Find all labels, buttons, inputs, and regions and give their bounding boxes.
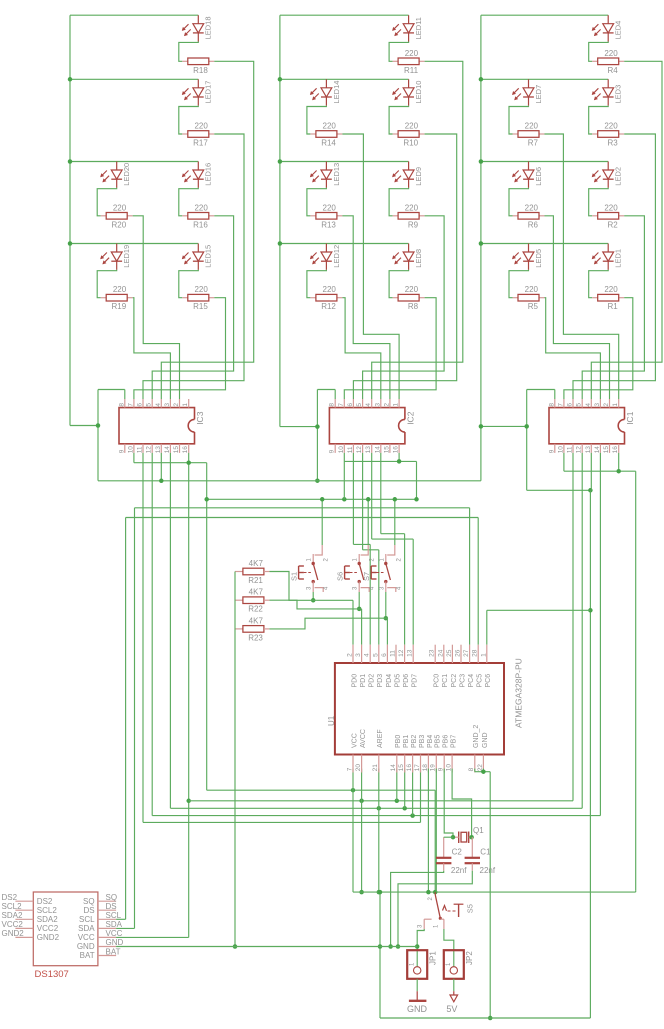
svg-text:SDA2: SDA2 — [2, 911, 23, 920]
svg-text:R13: R13 — [321, 220, 336, 229]
svg-text:R10: R10 — [403, 139, 418, 148]
junction IC3 pin16 jog — [186, 453, 191, 938]
svg-text:12: 12 — [356, 446, 363, 454]
svg-text:220: 220 — [113, 203, 127, 212]
svg-text:PB0: PB0 — [395, 735, 402, 748]
svg-text:VCC: VCC — [351, 733, 358, 748]
svg-text:220: 220 — [405, 122, 419, 131]
wire J1 to IC3 pin 8 — [98, 390, 125, 400]
svg-text:19: 19 — [430, 764, 437, 772]
svg-text:220: 220 — [113, 285, 127, 294]
svg-text:9: 9 — [548, 449, 555, 453]
svg-text:220: 220 — [525, 122, 539, 131]
wire U1 pins 8,22 GND — [475, 769, 490, 774]
svg-text:IC3: IC3 — [195, 411, 205, 425]
svg-text:PC2: PC2 — [451, 674, 458, 688]
resistor R16 220 — [179, 188, 215, 230]
wire S7 pin3 down — [384, 592, 389, 620]
svg-text:9: 9 — [329, 449, 336, 453]
svg-text:1: 1 — [612, 403, 619, 407]
wire left-col resistor row2 group1 to IC pin 2 — [133, 216, 180, 399]
pushbutton S6 — [335, 545, 375, 592]
svg-text:R16: R16 — [193, 220, 208, 229]
svg-text:LED5: LED5 — [534, 249, 543, 268]
wire U1 pin9 to crystal — [444, 769, 453, 838]
svg-text:S1: S1 — [289, 572, 298, 581]
junction J3 — [479, 424, 529, 429]
svg-text:13: 13 — [407, 649, 414, 657]
svg-text:16: 16 — [406, 764, 413, 772]
svg-text:14: 14 — [594, 446, 601, 454]
svg-text:SQ: SQ — [83, 897, 95, 906]
junction spine on bus y490.3 — [588, 488, 593, 493]
svg-text:27: 27 — [463, 649, 470, 657]
svg-text:DS2: DS2 — [37, 897, 53, 906]
wire left-col resistor row2 group3 to IC pin 2 — [545, 216, 610, 399]
wire resistor row0 group1 to IC pin 4 — [161, 61, 253, 399]
junction dots rail group 1 — [68, 77, 73, 246]
svg-text:10: 10 — [338, 446, 345, 454]
resistor R17 220 — [179, 106, 215, 148]
wire SCL bus y517.5 — [116, 518, 478, 920]
svg-text:SDA2: SDA2 — [37, 915, 58, 924]
svg-text:PD5: PD5 — [394, 674, 401, 688]
resistor R2 220 — [589, 188, 625, 230]
LED LED11 — [392, 15, 423, 41]
svg-text:PD2: PD2 — [369, 674, 376, 688]
svg-text:7: 7 — [127, 403, 134, 407]
svg-text:R4: R4 — [607, 66, 618, 75]
junction S5 pin2 — [433, 890, 438, 895]
wire resistor row3 group1 to IC pin 7 — [134, 298, 226, 399]
wire U1 pin20 down — [359, 769, 364, 895]
svg-text:SDA: SDA — [78, 924, 95, 933]
svg-text:11: 11 — [137, 446, 144, 453]
svg-text:VCC2: VCC2 — [2, 920, 24, 929]
wire bottom border GND — [378, 890, 591, 1018]
junction J2 — [315, 424, 320, 483]
svg-text:220: 220 — [604, 122, 618, 131]
svg-text:5: 5 — [372, 653, 379, 657]
wire resistor row1 group3 to IC pin 6 — [573, 134, 655, 399]
svg-text:3: 3 — [594, 403, 601, 407]
junction IC2 pin16 jog — [397, 453, 402, 464]
wire IC2 pin12 to U1 pin5 — [363, 453, 379, 645]
LED LED10 — [392, 79, 423, 105]
svg-text:4K7: 4K7 — [249, 616, 264, 625]
svg-text:PB3: PB3 — [419, 735, 426, 748]
svg-text:5V: 5V — [446, 1004, 457, 1014]
svg-text:9: 9 — [438, 767, 445, 771]
svg-text:8: 8 — [548, 403, 555, 407]
wire U1 pin19 down to S5 — [435, 769, 437, 893]
svg-text:PB4: PB4 — [427, 735, 434, 748]
wire S5 feed x435.2 — [434, 790, 436, 892]
svg-text:3: 3 — [164, 403, 171, 407]
wire U1 pin15 down — [404, 769, 406, 809]
LED LED9 — [392, 162, 423, 188]
wire S6 pin3 down — [357, 592, 362, 611]
wire VCC right spine x635.7 — [635, 471, 637, 892]
resistor R20 220 — [97, 188, 133, 230]
svg-text:JP1: JP1 — [429, 951, 438, 965]
svg-text:220: 220 — [405, 49, 419, 58]
svg-text:1: 1 — [480, 653, 487, 657]
wire C2 to GND — [388, 871, 443, 949]
resistor R13 220 — [307, 188, 343, 230]
wire resistor row3 group3 to IC pin 7 — [564, 298, 633, 399]
shift register IC3 — [118, 399, 205, 453]
resistor R8 220 — [389, 270, 425, 311]
svg-text:11: 11 — [390, 650, 397, 657]
svg-text:10: 10 — [557, 446, 564, 454]
svg-text:BAT: BAT — [106, 947, 121, 956]
svg-text:LED20: LED20 — [122, 163, 131, 186]
wire GND spine x490.2 — [488, 772, 493, 1021]
wire resistor row3 group2 to IC pin 7 — [344, 298, 436, 399]
crystal Q1 — [453, 826, 484, 843]
svg-text:13: 13 — [585, 446, 592, 454]
wire clock rail y808.3 IC3 pin14 to IC1 pin12 — [170, 453, 582, 811]
wire J2 to IC2 pin 8 — [317, 390, 335, 400]
junction IC1 pin16 jog — [616, 453, 621, 474]
svg-text:1: 1 — [182, 403, 189, 407]
wire data rail y800.8 IC3 pin16 to IC1 pin11 — [189, 453, 573, 803]
svg-text:PB2: PB2 — [411, 735, 418, 748]
svg-text:SDA: SDA — [106, 920, 123, 929]
pushbutton S5 — [418, 892, 475, 929]
wire VCC spine x353 down — [353, 790, 636, 892]
svg-text:16: 16 — [612, 446, 619, 454]
LED LED18 — [182, 15, 213, 41]
wire R22 to S6 junction and U1 pin3 — [269, 600, 361, 645]
svg-text:PC4: PC4 — [468, 674, 475, 688]
wire anode rail group 1 — [70, 15, 198, 425]
wire C1 to GND — [396, 871, 473, 949]
svg-text:11: 11 — [567, 446, 574, 453]
wire SDA bus y507.8 — [116, 508, 470, 929]
svg-text:4: 4 — [155, 403, 162, 407]
svg-text:LED10: LED10 — [414, 81, 423, 104]
svg-text:R11: R11 — [404, 66, 419, 75]
svg-text:R18: R18 — [193, 66, 208, 75]
svg-text:PB1: PB1 — [403, 735, 410, 748]
svg-text:7: 7 — [346, 767, 353, 771]
svg-text:PC1: PC1 — [442, 674, 449, 688]
wire R21 to S1 junction and U1 pin2 — [269, 572, 353, 645]
svg-text:15: 15 — [173, 446, 180, 454]
svg-text:220: 220 — [194, 203, 208, 212]
svg-text:LED14: LED14 — [332, 81, 341, 104]
wire resistor row1 group1 to IC pin 6 — [143, 134, 244, 399]
svg-text:6: 6 — [137, 403, 144, 407]
svg-text:15: 15 — [398, 764, 405, 772]
svg-text:Q1: Q1 — [473, 826, 484, 835]
LED LED13 — [310, 162, 341, 188]
wire resistor row2 group2 to IC pin 5 — [363, 216, 445, 399]
svg-text:S7: S7 — [362, 572, 371, 581]
svg-text:220: 220 — [194, 285, 208, 294]
svg-text:R8: R8 — [408, 302, 419, 311]
resistor R23 4K7 — [235, 616, 269, 642]
svg-text:LED11: LED11 — [414, 17, 423, 39]
svg-text:VCC2: VCC2 — [37, 924, 59, 933]
svg-text:8: 8 — [329, 403, 336, 407]
svg-text:15: 15 — [383, 446, 390, 454]
junction dots rail group 3 — [479, 77, 484, 246]
svg-text:VCC: VCC — [78, 933, 95, 942]
LED LED20 — [100, 162, 131, 188]
shift register IC2 — [329, 399, 416, 453]
wire resistor row0 group2 to IC pin 4 — [372, 61, 463, 399]
svg-text:220: 220 — [405, 203, 419, 212]
svg-text:DS1307: DS1307 — [35, 969, 69, 980]
wire U1 pin16 down — [412, 769, 414, 816]
connector JP1 — [407, 950, 437, 979]
svg-text:R5: R5 — [528, 302, 539, 311]
wire S5 pin3 to JP1 — [415, 929, 424, 967]
resistor R1 220 — [589, 270, 625, 311]
svg-text:PC6: PC6 — [485, 674, 492, 688]
svg-text:R23: R23 — [248, 633, 263, 642]
svg-text:PD0: PD0 — [351, 674, 358, 688]
svg-text:LED12: LED12 — [332, 245, 341, 268]
wire rail y822.4 IC3 pin11 to U1 pin17 — [143, 453, 421, 823]
svg-text:SCL: SCL — [106, 911, 122, 920]
svg-text:C1: C1 — [480, 848, 491, 857]
svg-text:15: 15 — [603, 446, 610, 454]
RTC IC DS1307 — [15, 892, 116, 980]
svg-text:GND: GND — [482, 732, 489, 748]
wire U1 pin18 down — [426, 769, 431, 895]
svg-text:4: 4 — [364, 653, 371, 657]
wire IC2 pin11 to U1 pin4 — [353, 453, 370, 645]
svg-text:LED17: LED17 — [204, 81, 213, 104]
labels DS1307 left nets — [2, 893, 25, 938]
capacitor C2 22nf — [436, 837, 467, 875]
svg-text:GND2: GND2 — [37, 933, 60, 942]
svg-text:3: 3 — [374, 403, 381, 407]
svg-text:17: 17 — [414, 764, 421, 772]
svg-text:14: 14 — [164, 446, 171, 454]
svg-text:12: 12 — [576, 446, 583, 454]
svg-text:220: 220 — [525, 203, 539, 212]
wire left-col resistor row1 group2 to IC pin 1 — [342, 134, 399, 399]
svg-text:8: 8 — [468, 767, 475, 771]
LED LED1 — [592, 244, 623, 270]
svg-text:6: 6 — [567, 403, 574, 407]
svg-text:PB6: PB6 — [443, 735, 450, 748]
svg-text:LED4: LED4 — [614, 21, 623, 40]
LED LED8 — [392, 244, 423, 270]
svg-text:2: 2 — [347, 653, 354, 657]
svg-text:PC0: PC0 — [434, 674, 441, 688]
svg-text:220: 220 — [604, 203, 618, 212]
svg-text:PB5: PB5 — [435, 735, 442, 748]
svg-text:PD7: PD7 — [412, 674, 419, 688]
wire S1 pin2 up to VCC bus — [320, 497, 325, 545]
svg-text:R19: R19 — [112, 302, 127, 311]
svg-text:LED16: LED16 — [204, 163, 213, 186]
svg-text:PC3: PC3 — [459, 674, 466, 688]
wire left-col resistor row3 group3 to IC pin 3 — [545, 298, 601, 399]
svg-text:JP2: JP2 — [465, 951, 474, 965]
svg-text:BAT: BAT — [80, 951, 95, 960]
LED LED19 — [100, 244, 131, 270]
svg-text:DS: DS — [106, 902, 117, 911]
svg-text:LED7: LED7 — [534, 85, 543, 104]
svg-text:AVCC: AVCC — [360, 729, 367, 748]
LED LED12 — [310, 244, 341, 270]
resistor R4 220 — [589, 42, 625, 75]
svg-text:11: 11 — [347, 446, 354, 453]
wire rail1 to J1 — [70, 425, 98, 427]
resistor R21 4K7 — [235, 559, 269, 585]
wire IC2 pin13 to U1 pin13 — [372, 453, 414, 645]
svg-text:U1: U1 — [327, 715, 336, 726]
svg-text:3: 3 — [355, 653, 362, 657]
LED LED14 — [310, 79, 341, 105]
svg-text:14: 14 — [374, 446, 381, 454]
svg-text:R17: R17 — [193, 139, 208, 148]
wire left-col resistor row2 group2 to IC pin 2 — [342, 216, 390, 399]
resistor R3 220 — [589, 106, 625, 148]
svg-text:26: 26 — [455, 649, 462, 657]
wire rail2 to J2 — [280, 426, 318, 428]
svg-text:220: 220 — [604, 49, 618, 58]
resistor R14 220 — [307, 106, 343, 148]
connector JP2 — [444, 950, 474, 979]
svg-text:S5: S5 — [466, 904, 475, 913]
wire IC3 pins 10,16 VCC jog — [134, 453, 207, 790]
svg-text:220: 220 — [405, 285, 419, 294]
svg-text:R20: R20 — [112, 220, 127, 229]
svg-text:12: 12 — [146, 446, 153, 454]
svg-text:2: 2 — [603, 403, 610, 407]
wire J1 vertical — [97, 390, 99, 481]
wire U1 pin21 down — [377, 769, 382, 895]
svg-text:PD3: PD3 — [377, 674, 384, 688]
svg-text:24: 24 — [437, 649, 444, 657]
wire S6 pin2 up to VCC bus — [366, 497, 371, 545]
svg-text:4: 4 — [365, 403, 372, 407]
svg-text:14: 14 — [390, 764, 397, 772]
svg-text:IC1: IC1 — [625, 411, 635, 425]
svg-text:5: 5 — [576, 403, 583, 407]
pushbutton S1 — [289, 545, 329, 592]
svg-text:R7: R7 — [528, 139, 539, 148]
resistor R10 220 — [389, 106, 425, 148]
svg-text:28: 28 — [472, 649, 479, 657]
wire DS1307 GND bus — [116, 946, 417, 948]
svg-text:R15: R15 — [193, 302, 208, 311]
wire rail3 to J3 — [481, 425, 527, 427]
capacitor C1 22nf — [465, 837, 496, 875]
svg-text:LED18: LED18 — [204, 16, 213, 39]
svg-text:9: 9 — [118, 449, 125, 453]
svg-text:13: 13 — [365, 446, 372, 454]
svg-text:22nf: 22nf — [451, 866, 467, 875]
svg-text:SQ: SQ — [106, 893, 118, 902]
LED LED15 — [182, 244, 213, 270]
svg-text:5: 5 — [356, 403, 363, 407]
wire bus y490.3 J3 to x635.7 — [527, 489, 591, 491]
svg-text:R12: R12 — [321, 302, 336, 311]
svg-text:7: 7 — [338, 403, 345, 407]
svg-text:6: 6 — [381, 653, 388, 657]
wire R23 to S7 junction and U1 pin6 — [269, 618, 387, 645]
svg-text:DS: DS — [83, 906, 94, 915]
svg-text:IC2: IC2 — [406, 411, 416, 425]
LED LED2 — [592, 162, 623, 188]
svg-text:LED13: LED13 — [332, 163, 341, 186]
wire J3 vertical — [526, 390, 528, 491]
wire IC2 pins 10,16 VCC jog — [344, 453, 416, 499]
svg-text:LED2: LED2 — [614, 167, 623, 186]
svg-text:16: 16 — [393, 446, 400, 454]
LED LED5 — [512, 244, 543, 270]
junction dots rail group 2 — [278, 77, 283, 246]
svg-text:R6: R6 — [528, 220, 539, 229]
wire U1 pin1 to spine x590.4 — [487, 610, 591, 644]
svg-text:SCL2: SCL2 — [2, 902, 23, 911]
svg-text:16: 16 — [182, 446, 189, 454]
wire IC2 pin10 lower stub — [343, 461, 345, 499]
svg-text:18: 18 — [422, 764, 429, 772]
wire IC1 pins 10,16 VCC jog — [564, 453, 636, 471]
svg-text:PB7: PB7 — [451, 735, 458, 748]
svg-text:10: 10 — [446, 764, 453, 772]
svg-text:220: 220 — [323, 203, 337, 212]
svg-text:23: 23 — [429, 649, 436, 657]
junction J1 — [96, 423, 101, 428]
svg-text:220: 220 — [604, 285, 618, 294]
svg-text:R9: R9 — [408, 220, 419, 229]
svg-text:GND: GND — [77, 942, 95, 951]
junction crystal left — [451, 835, 456, 840]
svg-text:6: 6 — [347, 403, 354, 407]
svg-text:S6: S6 — [335, 572, 344, 581]
shift register IC1 — [548, 399, 635, 453]
svg-text:25: 25 — [446, 649, 453, 657]
svg-text:220: 220 — [194, 122, 208, 131]
svg-text:7: 7 — [557, 403, 564, 407]
wire S5 pin1 to JP2 — [444, 929, 454, 967]
wire J2 vertical — [316, 390, 318, 481]
resistor R19 220 — [97, 270, 133, 311]
junction crystal right — [469, 835, 474, 840]
resistor R15 220 — [179, 270, 215, 311]
svg-text:PD4: PD4 — [386, 674, 393, 688]
wire left-col resistor row3 group1 to IC pin 3 — [133, 298, 171, 399]
resistor R6 220 — [509, 188, 545, 230]
resistor R12 220 — [307, 270, 343, 311]
pushbutton S7 — [362, 545, 402, 592]
svg-text:R2: R2 — [607, 220, 618, 229]
svg-text:SCL: SCL — [79, 915, 95, 924]
svg-text:GND: GND — [407, 1004, 428, 1014]
wire anode rail group 2 — [280, 15, 409, 426]
wire S1 pin3 down — [311, 592, 316, 603]
svg-text:ATMEGA328P-PU: ATMEGA328P-PU — [514, 658, 524, 728]
svg-text:12: 12 — [398, 649, 405, 657]
wire J3 to IC1 pin 8 — [527, 390, 555, 400]
svg-text:8: 8 — [118, 403, 125, 407]
svg-text:LED9: LED9 — [414, 167, 423, 186]
svg-text:5: 5 — [146, 403, 153, 407]
svg-text:PD1: PD1 — [360, 674, 367, 688]
svg-text:LED3: LED3 — [614, 85, 623, 104]
